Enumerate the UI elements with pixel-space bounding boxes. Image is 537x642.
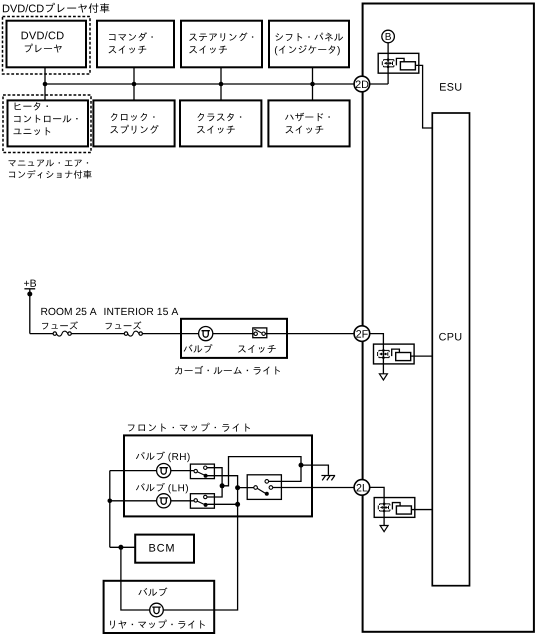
- wire switch RH NC to junction A: [207, 468, 222, 486]
- label cluster line2: [197, 126, 235, 134]
- connector 2F circle: [354, 326, 370, 342]
- label heater line2: [14, 115, 78, 123]
- box heater control unit: [8, 100, 89, 146]
- box DVD/CD player: [7, 21, 87, 68]
- box hazard switch: [268, 100, 349, 146]
- label steering line1: [189, 32, 253, 41]
- label cargo bulb: [184, 344, 213, 353]
- junction column 4: [310, 82, 315, 87]
- switch cargo: [253, 328, 267, 338]
- label clock spring line1: [111, 113, 155, 121]
- label 2F: [356, 330, 368, 337]
- junction column 1: [43, 82, 48, 87]
- master switch lever: [257, 488, 265, 493]
- junction +B: [27, 292, 32, 297]
- master switch NO contact: [269, 486, 273, 490]
- connector 2D circle: [354, 76, 370, 92]
- wire column 3 drop: [220, 67, 222, 100]
- box cluster switch: [180, 100, 261, 146]
- label 2L: [357, 484, 368, 491]
- label player: [25, 44, 62, 53]
- wire +B down: [29, 289, 31, 334]
- label front map light: [128, 423, 250, 432]
- wire junction G to chassis ground: [301, 465, 328, 475]
- wire junction B to master switch: [238, 487, 254, 489]
- wire master switch to 2L: [273, 487, 354, 489]
- wire column 4 drop: [312, 67, 314, 100]
- junction C: [235, 502, 240, 507]
- label cargo switch: [238, 345, 276, 353]
- bulb front RH: [157, 464, 171, 478]
- box cargo room light: [181, 319, 287, 358]
- wire bus to connector 2D: [45, 83, 354, 85]
- wire junction A to ground loop: [222, 457, 301, 486]
- label BCM: [149, 544, 173, 552]
- box front map light: [124, 435, 312, 516]
- box rear map light: [104, 581, 215, 633]
- connector 2L circle: [354, 480, 370, 496]
- wire feed segment 2: [71, 333, 124, 335]
- junction B: [235, 485, 240, 490]
- wire feed vertical left: [109, 471, 111, 548]
- wire feed segment 3: [142, 333, 181, 335]
- driver U3: [374, 498, 415, 518]
- label 2D: [356, 81, 369, 88]
- node B circle: [382, 30, 395, 43]
- label hazard line2: [286, 126, 324, 134]
- label steering line2: [189, 46, 227, 54]
- junction A: [220, 483, 225, 488]
- wire feed segment 1: [30, 333, 53, 335]
- fuse ROOM 25A: [53, 332, 56, 335]
- master switch moving contact: [265, 492, 269, 496]
- wire junction D to rear bulb: [121, 547, 150, 610]
- ground chassis: [321, 476, 335, 481]
- label hazard line1: [285, 113, 330, 122]
- master switch NC contact: [265, 480, 269, 484]
- wire cargo switch to 2F: [266, 333, 355, 335]
- label manual air conditioner cars line1: [8, 160, 88, 167]
- label commander line2: [109, 46, 147, 54]
- box steering switch: [181, 21, 262, 68]
- label heater line1: [15, 102, 48, 110]
- wire U2 output to CPU: [411, 355, 433, 357]
- box clock spring: [93, 100, 174, 146]
- junction D: [118, 545, 123, 550]
- junction column 2: [132, 82, 137, 87]
- label rear map light: [110, 620, 205, 629]
- wire driver U1 supply to B: [387, 43, 389, 84]
- label cargo room light: [175, 366, 280, 375]
- label shift panel line2: [275, 45, 340, 55]
- ground U2: [379, 374, 387, 380]
- label bulb RH: [136, 452, 190, 463]
- box commander switch: [97, 21, 174, 68]
- wire feed bulb LH: [110, 500, 157, 502]
- node +B terminal tick: [24, 288, 35, 290]
- box BCM: [135, 535, 194, 563]
- switch RH moving contact: [204, 474, 208, 478]
- label CPU: [439, 333, 461, 341]
- label bulb LH: [136, 483, 188, 494]
- ground U3: [380, 526, 388, 532]
- wire junction G to master switch NC: [269, 465, 301, 481]
- wire switch LH NC to junction A: [207, 486, 222, 497]
- label fuse2: [106, 321, 142, 329]
- label rear bulb: [138, 588, 167, 597]
- switch LH moving contact: [204, 503, 208, 507]
- wire feed bulb RH: [110, 470, 157, 472]
- label manual air conditioner cars line2: [9, 170, 92, 179]
- wire 2L to driver U3: [370, 487, 385, 497]
- node +B label: [24, 280, 36, 287]
- label INTERIOR 15 A: [104, 308, 178, 315]
- wire U1 output to CPU: [415, 65, 432, 128]
- wire bulb LH to switch LH: [171, 500, 194, 502]
- wire U3 output to CPU: [411, 509, 432, 511]
- label ESU: [440, 83, 461, 91]
- wire cargo bulb in: [181, 333, 199, 335]
- wire U2 through: [382, 344, 384, 374]
- box shift panel indicator: [269, 21, 349, 68]
- label DVD/CD: [22, 31, 64, 39]
- switch RH: [190, 464, 214, 479]
- wire junction B to C: [237, 488, 239, 505]
- wire cargo bulb to switch: [213, 333, 254, 335]
- bulb front LH: [157, 494, 171, 508]
- wire 2D to driver U1: [370, 83, 389, 85]
- junction G: [299, 463, 304, 468]
- label heater line3: [14, 127, 51, 135]
- bulb cargo: [199, 327, 213, 341]
- label B: [386, 33, 391, 40]
- box CPU: [432, 113, 469, 586]
- label cluster line1: [197, 113, 241, 121]
- box ESU: [363, 4, 534, 632]
- wire feed to BCM: [110, 546, 135, 548]
- label shift panel line1: [275, 33, 343, 42]
- box master switch: [247, 475, 281, 500]
- switch LH: [190, 494, 214, 509]
- wire switch LH pole to junction C: [208, 503, 238, 505]
- master switch pole: [254, 486, 258, 490]
- wire column 1 drop: [44, 67, 46, 100]
- driver U2: [374, 344, 415, 364]
- wire junction C down to rear bulb: [163, 504, 237, 610]
- wire column 2 drop: [133, 67, 135, 100]
- label fuse1: [42, 321, 78, 329]
- wire U3 through: [383, 498, 385, 526]
- label clock spring line2: [110, 125, 158, 134]
- label ROOM 25 A: [41, 308, 96, 315]
- junction column 3: [219, 82, 224, 87]
- wire bulb RH to switch RH: [171, 470, 194, 472]
- wire switch RH pole to junction B: [208, 476, 238, 488]
- driver U1: [378, 53, 419, 73]
- wire 2F to driver U2: [370, 334, 384, 345]
- bulb rear: [150, 603, 164, 617]
- label DVD/CD player equipped cars: [3, 3, 110, 13]
- label commander line1: [109, 32, 153, 41]
- dashed option box (DVD/CD player cars): [3, 17, 91, 75]
- dashed option box (manual A/C cars): [3, 95, 91, 153]
- fuse INTERIOR 15A: [124, 332, 127, 335]
- junction feed LH: [108, 499, 113, 504]
